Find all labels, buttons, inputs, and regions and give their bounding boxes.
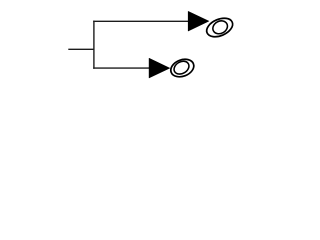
terminal ring bottom: [168, 56, 196, 80]
arrowhead bottom: [149, 58, 170, 78]
terminal ring top: [204, 15, 236, 41]
wire input stub: [68, 48, 94, 50]
arrowhead top: [188, 11, 209, 31]
wire vertical branch: [93, 21, 95, 69]
wire bottom branch: [93, 67, 150, 69]
wire top branch: [93, 20, 189, 22]
